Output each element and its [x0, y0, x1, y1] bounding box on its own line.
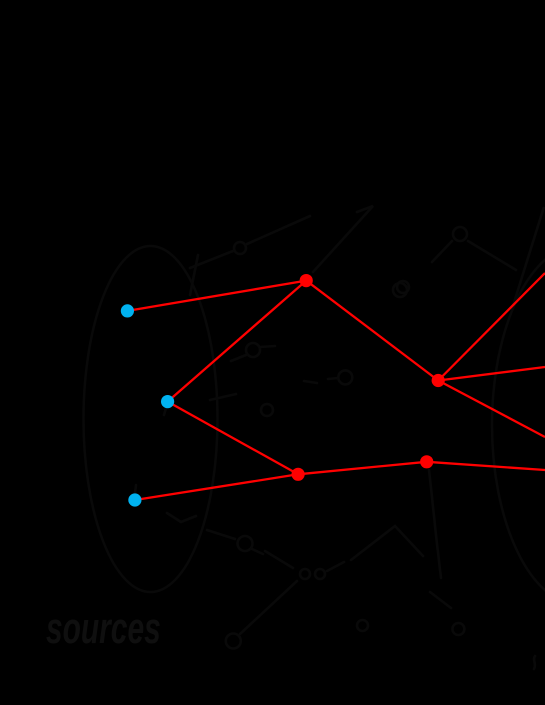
- svg-text:sources: sources: [46, 603, 161, 652]
